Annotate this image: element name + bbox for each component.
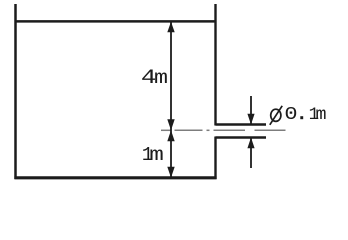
diameter dim upper extension line xyxy=(250,96,252,125)
diameter dim upper arrowhead (down) xyxy=(247,114,254,125)
1m bottom arrowhead (down) xyxy=(167,167,174,178)
svg-text:0: 0 xyxy=(284,104,297,125)
centerline dot xyxy=(207,129,210,131)
diameter dim lower arrowhead (up) xyxy=(247,138,254,149)
label decimal point xyxy=(300,116,303,119)
4m dimension line xyxy=(170,22,172,130)
centerline dash 2 xyxy=(175,129,203,131)
svg-text:m: m xyxy=(154,67,168,89)
tank bottom line xyxy=(14,176,216,179)
phi diameter symbol xyxy=(270,106,282,125)
orifice pipe bottom stub xyxy=(216,136,267,139)
svg-text:m: m xyxy=(149,144,164,166)
centerline dash 1 xyxy=(161,129,172,131)
tank right wall lower segment xyxy=(214,137,216,180)
diameter dim lower extension line xyxy=(250,138,252,169)
4m top arrowhead (up) xyxy=(167,22,174,33)
1m top arrowhead (up) xyxy=(167,130,174,141)
centerline dash 4 xyxy=(255,129,286,131)
4m bottom arrowhead (down) xyxy=(167,119,174,130)
tank water surface top line xyxy=(15,20,217,23)
1m dimension line xyxy=(170,130,172,177)
svg-text:m: m xyxy=(316,105,327,125)
centerline dash 3 xyxy=(214,129,246,131)
tank left wall xyxy=(14,4,17,179)
orifice pipe top stub xyxy=(216,123,267,126)
tank right wall upper segment xyxy=(214,4,216,126)
